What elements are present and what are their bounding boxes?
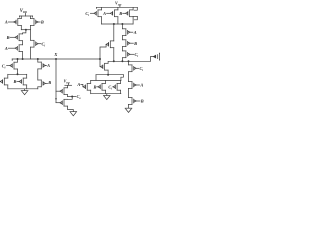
wire P1 drain-source leads: [20, 16, 22, 30]
transistor N5 gate B (carry PDN): [38, 80, 46, 87]
svg-text:A: A: [46, 63, 50, 68]
transistor N9 gate B (sum PDN box): [98, 83, 106, 90]
svg-text:Ci: Ci: [134, 52, 138, 58]
transistor P8 gate A (sum PUN): [110, 10, 118, 17]
transistor N13 gate B (sum PDN series): [129, 98, 137, 105]
junction on X feed: [55, 98, 57, 100]
label B input N4: [12, 79, 19, 84]
svg-text:A: A: [139, 83, 143, 88]
wire P5 leads: [30, 30, 32, 59]
label Co output: [77, 94, 82, 100]
transistor N12 gate A (sum PDN series): [129, 82, 137, 89]
transistor N3 (carry PDN box left): [0, 78, 8, 85]
transistor P11 gate A (sum PUN series): [122, 29, 130, 36]
label Ci input P5: [38, 41, 45, 47]
label B input P12: [130, 41, 137, 46]
wire VDD rail (carry stage): [19, 16, 32, 17]
wire Sum to output inverter: [150, 57, 155, 62]
label A input N8: [76, 82, 83, 87]
wire N7 gate from X: [99, 59, 101, 67]
svg-text:B: B: [12, 79, 16, 84]
transistor P2 gate B (carry PUN): [31, 19, 39, 26]
wire N1 leads: [17, 59, 19, 74]
node n1 junction: [25, 29, 27, 31]
transistor N1 gate Ci (carry PDN): [10, 62, 18, 69]
svg-text:B: B: [133, 41, 137, 46]
wire sum PDN box top: [91, 79, 121, 81]
svg-text:A: A: [133, 30, 137, 35]
wire P6 gate: [56, 90, 60, 92]
wire sum PDN box bottom: [91, 93, 121, 95]
label A input P11: [130, 30, 137, 35]
wire P8 leads: [117, 7, 119, 24]
svg-text:Ci: Ci: [108, 84, 112, 90]
wire PDN stack leads: [128, 61, 130, 108]
svg-text:X: X: [53, 52, 58, 57]
svg-text:VDD: VDD: [64, 80, 70, 85]
label B input N9: [92, 85, 97, 90]
label B input N5: [46, 80, 52, 85]
node Sum junction PDN stack: [128, 60, 130, 62]
svg-text:Ci: Ci: [139, 66, 143, 72]
svg-text:B: B: [6, 35, 10, 40]
wire VDD rail (inverter): [65, 84, 72, 86]
transistor P1 gate A (carry PUN): [14, 19, 22, 26]
label B input P3: [6, 35, 15, 40]
wire P6 leads: [67, 85, 69, 96]
node Sum junction stack: [121, 60, 123, 62]
wire P7 leads: [101, 7, 103, 24]
label Ci input N11: [136, 66, 143, 72]
wire X to inverter gates: [55, 59, 57, 103]
junction inverter output: [71, 96, 73, 98]
junction N1 to box: [17, 73, 19, 75]
node X junction inverter tap: [55, 58, 57, 60]
label B input P2: [38, 20, 44, 25]
wire node n1 (carry): [21, 29, 30, 31]
svg-text:B: B: [118, 11, 122, 16]
transistor N10 gate Ci (sum PDN box): [113, 83, 121, 90]
svg-text:A: A: [76, 82, 80, 87]
transistor P7 gate Ci (sum PUN): [94, 10, 102, 17]
wire PUN stack leads: [121, 24, 123, 61]
label Ci input N10: [108, 84, 113, 90]
svg-text:A: A: [4, 20, 8, 25]
wire N5 bottom lead: [37, 87, 39, 89]
svg-text:Ci: Ci: [41, 41, 45, 47]
wire box leads: [91, 80, 121, 93]
svg-text:Ci: Ci: [85, 11, 89, 17]
label Ci input P7: [85, 11, 93, 17]
wire carry PDN ground line: [8, 88, 38, 90]
wire node X: [12, 59, 100, 60]
svg-text:VDD: VDD: [115, 1, 121, 7]
wire N6 source to ground: [68, 106, 74, 112]
node X junction N2: [37, 58, 39, 60]
node n4 junction: [107, 74, 109, 76]
wire N6 gate: [56, 102, 60, 104]
node n3 junction stack: [121, 23, 123, 25]
transistor P9 gate B (sum PUN): [125, 10, 133, 17]
transistor N11 gate Ci (sum PDN series): [129, 65, 137, 72]
node X junction right end: [99, 58, 101, 60]
transistor P12 gate B (sum PUN series): [122, 40, 130, 47]
label Ci input P13: [130, 52, 138, 58]
svg-text:Co: Co: [77, 94, 82, 100]
node X junction left: [17, 58, 19, 60]
ground (sum box): [103, 94, 110, 100]
transistor P4 gate A (carry PUN series): [15, 45, 23, 52]
wire rail end hook bottom: [133, 16, 137, 19]
wire P4 to node X: [22, 52, 24, 59]
wire N2 leads: [37, 59, 39, 80]
wire P9 leads: [132, 7, 134, 24]
label B input N13: [136, 99, 144, 104]
label X: [53, 52, 58, 57]
label A input P1: [4, 20, 14, 25]
node X junction P4: [22, 58, 24, 60]
label A input P4: [4, 46, 15, 51]
wire N3 gate from edge: [0, 81, 1, 83]
transistor P13 gate Ci (sum PUN series): [122, 51, 130, 58]
power VDD (sum stage): [115, 1, 121, 8]
wire N4 leads: [26, 74, 28, 89]
transistor N6 inverter NMOS gate X: [60, 99, 68, 106]
ground (inverter): [70, 112, 77, 116]
ground (carry stage): [21, 89, 28, 95]
node Sum junction PX: [113, 60, 115, 62]
wire N7 leads: [107, 61, 109, 74]
transistor P3 gate B (carry PUN series): [15, 34, 23, 41]
svg-text:A: A: [102, 11, 106, 16]
wire P10 leads: [113, 24, 115, 61]
wire VDD rail (sum stage): [97, 7, 138, 8]
svg-text:B: B: [140, 99, 144, 104]
label B input P9: [118, 11, 125, 16]
transistor P5 gate Ci (carry PUN): [31, 40, 39, 47]
wire N3 leads: [7, 74, 9, 89]
node n3 junction PX: [113, 23, 115, 25]
wire inverter output: [68, 96, 77, 98]
wire P2 leads: [30, 16, 32, 30]
wire n1 to P3: [23, 30, 26, 34]
wire P10 gate from X: [100, 44, 106, 59]
wire n4 left drop: [95, 75, 97, 81]
wire node n4 (sum): [96, 74, 123, 76]
transistor clipped at right edge (sum output): [153, 53, 160, 60]
label A input P8: [102, 11, 110, 16]
wire carry PDN box top: [8, 73, 27, 75]
wire P3 to P4: [22, 41, 24, 45]
transistor N2 gate A (carry PDN): [38, 62, 46, 69]
svg-text:B: B: [40, 20, 44, 25]
label Ci input N1: [2, 63, 10, 69]
ground (sum stack): [125, 108, 132, 112]
power VDD (inverter): [64, 80, 70, 86]
wire node Sum: [109, 60, 151, 62]
wire rail end hook top: [134, 7, 137, 10]
transistor N7 gate X (sum PDN): [100, 63, 108, 70]
svg-text:Ci: Ci: [2, 63, 6, 69]
svg-text:B: B: [47, 80, 51, 85]
label A input N12: [136, 83, 143, 88]
transistor N8 gate A (sum PDN box): [83, 83, 91, 90]
power VDD (carry stage): [20, 9, 27, 16]
wire n4 right drop: [121, 75, 124, 81]
transistor N4 gate B (carry PDN box right): [19, 78, 27, 85]
svg-text:B: B: [92, 85, 96, 90]
svg-text:A: A: [4, 46, 8, 51]
wire N6 drain path: [68, 97, 73, 100]
wire node n3 (sum): [102, 23, 134, 25]
transistor P6 inverter PMOS gate X: [60, 88, 68, 95]
transistor P10 gate X (sum PUN): [106, 41, 114, 48]
label A input N2: [46, 63, 51, 68]
